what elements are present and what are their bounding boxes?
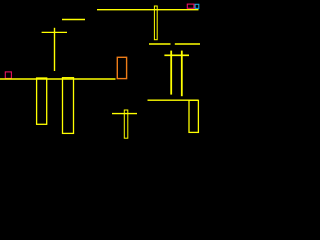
wire W5 (mid-right horizontal segment, left part) — [149, 43, 171, 45]
wire W4 (vertical wire through node A) — [54, 28, 56, 71]
wire W2 (long top bus wire) — [97, 9, 199, 11]
wire W6 (mid-right horizontal segment, right part to edge) — [175, 43, 200, 45]
wire W1 (top-left horizontal segment) — [62, 19, 85, 21]
wire W3 (short crossbar on node A) — [42, 31, 67, 33]
capacitor C1 plate 2 (right vertical) — [181, 51, 183, 97]
connector J1 (red outline, top right) — [187, 4, 194, 8]
resistor R2 (tall body hanging from bus, left) — [37, 78, 47, 124]
wire W7 (crossbar over capacitor plates) — [164, 54, 189, 56]
resistor R5 (narrow vertical body of bottom T) — [124, 110, 128, 138]
connector J4 (red outline on left bus) — [5, 72, 11, 79]
resistor R4 (body hanging below wire W9, bottom right) — [189, 100, 198, 132]
connector J3 (orange outline above left bus) — [117, 57, 126, 78]
wire W9 (lower-right horizontal wire) — [148, 99, 199, 101]
wire W10 (crossbar of bottom T) — [112, 113, 137, 115]
connector J2 (teal outline, top right corner) — [195, 4, 199, 8]
wire W8 (long left bus wire) — [0, 78, 116, 80]
capacitor C1 plate 1 (left vertical) — [170, 51, 172, 95]
resistor R3 (tall body hanging from bus, right) — [63, 78, 74, 134]
resistor R1 (narrow vertical body crossing wire W2) — [154, 6, 157, 40]
